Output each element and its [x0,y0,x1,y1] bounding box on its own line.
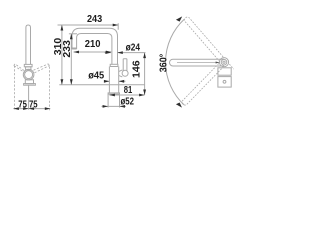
arrow o45 right [119,80,125,83]
side view spout arch inner [77,34,112,65]
svg-text:360°: 360° [158,54,169,73]
arrow 233 up [70,34,73,40]
side view lever knob [122,70,128,76]
dim line 233 [70,34,72,85]
arrow 75 left [13,107,19,110]
dim line o52 [102,105,127,107]
dim line o24 [105,52,146,54]
front view collar [24,64,32,66]
front view base flange [24,84,36,86]
arrow 243 right [113,24,119,27]
dim line 210 [74,51,112,53]
svg-text:ø52: ø52 [120,96,134,107]
front view lever neck [26,67,31,70]
front view dashed extension left [13,66,15,111]
dim ext right 243 [117,23,119,30]
arrow o52 right [120,105,126,108]
arrow o24 left [105,51,111,54]
top view body lower rect [218,77,231,88]
arrow 146 up [143,53,146,59]
top view solid spout [169,59,224,66]
top view pivot ring inner [221,59,227,65]
arrow 81 right [139,94,145,97]
svg-text:81: 81 [124,85,133,96]
front view joint circle outer [23,69,34,80]
svg-text:75: 75 [29,99,38,110]
top view dashed spout upleft [183,16,233,73]
dim line 243 [58,24,119,26]
top view pivot dot [223,61,225,63]
arrow spout centerline [216,62,220,64]
arrow 75 right [45,107,51,110]
svg-text:ø45: ø45 [88,70,105,81]
counter line [59,84,144,86]
side view body [109,67,118,93]
side view collar [110,64,118,66]
dim line 75-75 [13,108,50,110]
side view spout arch outer [72,28,118,64]
side view lever cone [119,70,123,77]
arrow 310 up [61,25,64,31]
side view base flange [108,93,119,94]
top view pivot ring outer [219,58,228,67]
arrow arc bottom [176,103,182,108]
arrow o45 left [104,80,110,83]
dim line 81 [109,94,144,96]
dim line 146 [144,53,146,95]
svg-text:233: 233 [62,40,73,58]
dim line 310 [61,25,63,85]
arrow arc top [176,16,182,21]
svg-text:146: 146 [132,60,143,78]
arrow 233 down [70,79,73,85]
front view joint circle inner [25,71,33,79]
svg-text:210: 210 [85,39,101,50]
top view spout centerline [177,62,219,64]
top view arc 360 [166,19,185,104]
svg-text:75: 75 [18,99,27,110]
arrow 81 left [109,94,115,97]
arrow 75 middle left [23,107,29,110]
front view body [25,80,33,84]
dim ext o52 [108,94,119,107]
top view body upper rect [218,68,231,75]
arrow 310 down [61,79,64,85]
arrow 75 middle right [29,107,34,110]
arrow o24 right [117,51,123,54]
svg-text:ø24: ø24 [126,42,141,53]
dim line o45 [104,80,126,82]
arrow 210 left [74,51,80,54]
side view lever handle [123,59,127,71]
front view dashed extension right [48,67,50,111]
dim ext 233 top [69,33,77,35]
top view dashed spout downleft [181,63,223,106]
front view dashed lever left [14,64,26,73]
front view dashed lever right [33,64,49,73]
side view outlet end face [72,48,77,49]
arrow 210 right [106,51,112,54]
svg-text:243: 243 [87,14,103,25]
top view body circle [223,80,226,83]
front view centerline [28,85,30,110]
arrow 146 down [143,90,146,96]
arrow o52 left [103,105,109,108]
front view spout tube [26,25,31,64]
